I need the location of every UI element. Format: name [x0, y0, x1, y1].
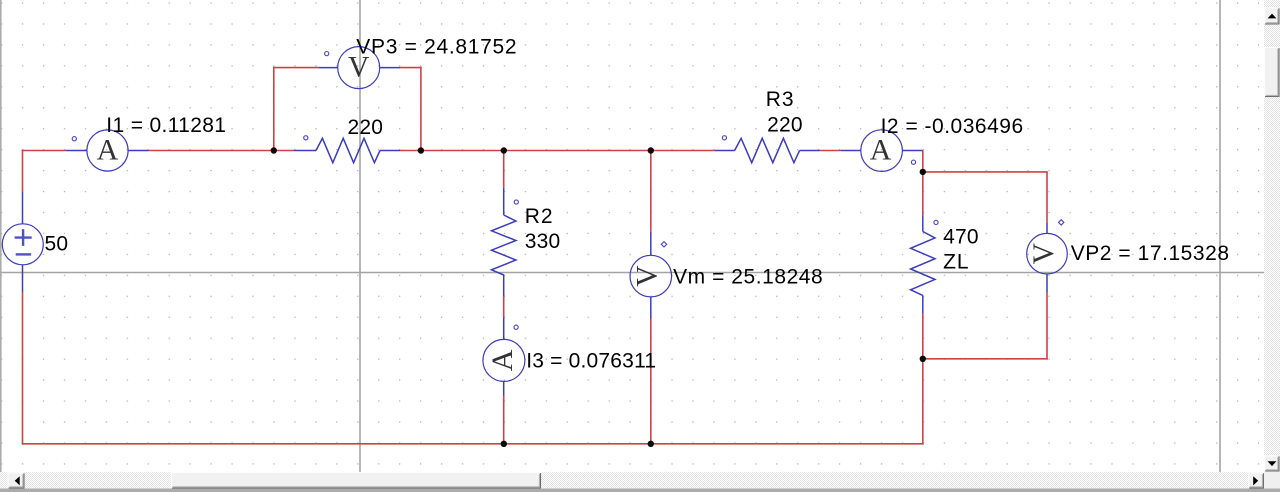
pin leads: load ZL [922, 215, 924, 313]
svg-text:R2: R2 [525, 205, 554, 228]
vertical scrollbar up button [1265, 8, 1280, 25]
wire: bottom ground rail [22, 443, 924, 445]
resistor R3 220 [735, 138, 800, 162]
ammeter I1 circle [87, 130, 128, 171]
svg-text:I3 = 0.076311: I3 = 0.076311 [526, 350, 656, 373]
svg-text:220: 220 [348, 116, 384, 139]
wire: left vertical below source to bottom rail [22, 292, 24, 445]
svg-text:50: 50 [45, 233, 69, 256]
wire: VP3 voltmeter loop [273, 67, 422, 151]
pin leads: ammeter I2 [841, 150, 923, 152]
pin leads: resistor 220 (top) [294, 150, 400, 152]
page border vertical line x=360 [359, 0, 361, 472]
page border horizontal line y=272.5 [0, 272, 1280, 274]
pin marker: 220 [304, 136, 308, 140]
svg-text:V: V [1028, 243, 1060, 264]
svg-text:R3: R3 [766, 88, 795, 111]
svg-text:A: A [486, 349, 519, 371]
svg-text:I1 = 0.11281: I1 = 0.11281 [106, 114, 226, 137]
wire: R3 to ammeter I2 [820, 150, 841, 152]
svg-text:A: A [870, 134, 892, 167]
wire: ammeter I3 to bottom rail [503, 396, 505, 444]
load resistor ZL 470 [911, 232, 935, 296]
resistor R2 330 [492, 215, 516, 275]
pin leads: voltmeter Vm [650, 232, 652, 318]
junction node B (right of 220) [418, 147, 424, 153]
wire: R2 to ammeter I3 [503, 296, 505, 318]
pin marker: I2 [911, 160, 915, 164]
pin leads: ammeter I3 [503, 318, 505, 396]
svg-text:VP2 = 17.15328: VP2 = 17.15328 [1071, 242, 1230, 265]
vertical scrollbar down button [1265, 456, 1280, 472]
junction node D (I2/ZL/VP2) [920, 169, 926, 175]
pin marker: I1 [72, 137, 76, 141]
wire: load ZL to bottom rail [922, 314, 924, 445]
wire: ammeter I2 corner down to node D [922, 151, 924, 216]
junction node: I3 bottom rail [501, 441, 507, 447]
junction node E (ZL bottom/VP2) [920, 356, 926, 362]
junction node: Vm bottom rail [648, 441, 654, 447]
wire: VP2 voltmeter loop [923, 172, 1048, 360]
svg-text:VP3 = 24.81752: VP3 = 24.81752 [356, 35, 517, 58]
svg-text:Vm = 25.18248: Vm = 25.18248 [673, 265, 823, 288]
svg-text:330: 330 [525, 230, 561, 253]
horizontal scrollbar right button [1249, 473, 1265, 489]
svg-text:V: V [631, 265, 663, 286]
pin leads: ammeter I1 [67, 150, 149, 152]
pin marker: Vm (diamond) [661, 242, 666, 247]
pin leads: voltmeter VP2 [1046, 222, 1048, 292]
window left edge border [0, 0, 2, 489]
junction node: Vm top [648, 147, 654, 153]
pin leads: resistor R2 [503, 188, 505, 296]
window bottom edge [0, 489, 1280, 492]
ammeter I2 circle [861, 130, 903, 172]
page border vertical line x=1220 [1219, 0, 1221, 472]
pin marker: R2 [514, 200, 518, 204]
pin leads: source V1 [22, 192, 24, 292]
wire: node C down to voltmeter Vm [650, 151, 652, 232]
wire: voltmeter Vm to bottom rail [650, 318, 652, 444]
svg-text:220: 220 [767, 114, 803, 137]
svg-text:I2 = -0.036496: I2 = -0.036496 [881, 115, 1024, 138]
voltmeter VP3 circle [338, 47, 380, 89]
pin marker: R3 [722, 136, 726, 140]
scrollbar corner [1264, 472, 1280, 492]
voltmeter Vm circle [630, 255, 672, 297]
pin marker: I3 [514, 325, 518, 329]
pin marker: ZL [934, 220, 938, 224]
vertical scrollbar track [1264, 0, 1280, 472]
vertical scrollbar thumb [1265, 48, 1280, 98]
pin marker: VP3 [325, 52, 329, 56]
svg-text:470: 470 [943, 226, 979, 249]
source V1 circle with plus minus [2, 224, 43, 265]
voltmeter VP2 circle [1027, 233, 1068, 274]
pin leads: voltmeter VP3 [319, 67, 400, 69]
svg-text:A: A [97, 134, 119, 167]
pin leads: resistor R3 [715, 150, 820, 152]
horizontal scrollbar thumb [172, 473, 542, 489]
wire: ammeter I1 to node A [149, 150, 295, 152]
wire: source V1 to ammeter I1 (top left corner) [22, 150, 67, 192]
ammeter I3 circle [483, 339, 525, 381]
wire: node A vertical into R2 [503, 151, 505, 188]
svg-text:ZL: ZL [943, 250, 970, 273]
junction node: R2 top [501, 147, 507, 153]
horizontal scrollbar left button [8, 473, 25, 489]
pin marker: VP2 (diamond) [1059, 220, 1064, 225]
horizontal scrollbar track [0, 472, 1264, 489]
junction node A (220/R2 tap) [271, 147, 277, 153]
wire: node B to resistor R3 (top middle) [400, 150, 716, 152]
resistor 220 (top, between VP3 taps) [316, 138, 380, 162]
